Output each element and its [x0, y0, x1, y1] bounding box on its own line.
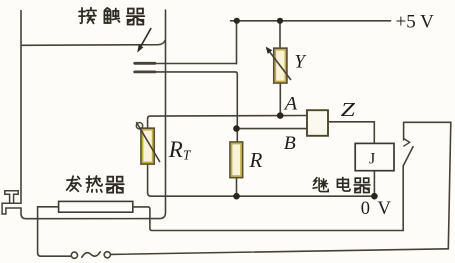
svg-text:J: J: [369, 151, 375, 168]
svg-text:Z: Z: [341, 99, 356, 121]
svg-text:0 V: 0 V: [361, 199, 393, 219]
svg-text:Y: Y: [295, 53, 307, 73]
svg-text:R: R: [249, 148, 263, 172]
svg-text:A: A: [283, 95, 298, 115]
svg-text:B: B: [284, 134, 296, 154]
svg-text:+5 V: +5 V: [396, 12, 435, 33]
